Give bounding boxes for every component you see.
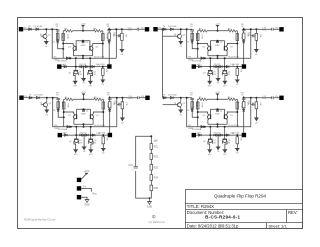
ground symbol (Q4) bbox=[88, 81, 93, 84]
wire base coupling bbox=[76, 41, 90, 47]
svg-text:GND: GND bbox=[84, 204, 90, 207]
wire output row bbox=[109, 28, 145, 30]
resistor R1 bbox=[56, 33, 59, 39]
wire input row bbox=[28, 28, 58, 30]
wire pad J5 to +12V bbox=[81, 173, 86, 179]
connector pad J6 (pin 14) bbox=[77, 186, 81, 190]
junction lower rail right bbox=[89, 57, 91, 59]
diode D12 bbox=[108, 41, 111, 44]
wire input to lower rail bbox=[52, 29, 63, 58]
svg-text:560C: 560C bbox=[128, 30, 133, 32]
flip-flop block 4 (bottom-right) bbox=[163, 92, 284, 156]
connector pad J8 (block 2 input) bbox=[153, 27, 162, 31]
resistor R22 bbox=[150, 154, 159, 160]
svg-text:R25: R25 bbox=[154, 187, 159, 190]
svg-text:680P: 680P bbox=[81, 45, 86, 47]
wire +12V to rail bbox=[82, 25, 84, 31]
wire R11 branch bbox=[121, 29, 123, 49]
junction right chain top bbox=[108, 28, 110, 30]
svg-text:R24: R24 bbox=[154, 177, 159, 180]
resistor R2 bbox=[65, 30, 73, 33]
drawing border frame bbox=[18, 18, 303, 229]
collector rail wire bbox=[63, 30, 103, 32]
power symbol +12V (connector area) bbox=[84, 170, 90, 175]
connector pad J3 set bbox=[57, 64, 61, 68]
wire left collector leg bbox=[62, 31, 64, 58]
transistor Q2 bbox=[73, 58, 78, 81]
svg-text:+12V: +12V bbox=[84, 170, 90, 173]
svg-text:R21: R21 bbox=[154, 146, 159, 149]
resistor R7 bbox=[102, 34, 105, 41]
wire center emitter to ground bbox=[83, 67, 85, 79]
svg-text:Date: 8/24/2012 @9:51:31p: Date: 8/24/2012 @9:51:31p bbox=[187, 224, 239, 229]
junction feedback drop bbox=[115, 28, 117, 30]
power symbol +12V (block) bbox=[80, 24, 86, 27]
transistor Q3 bbox=[90, 44, 103, 56]
diode D1 bbox=[29, 28, 32, 31]
bias network loop wire bbox=[136, 136, 152, 198]
diode D10 bbox=[85, 65, 88, 67]
resistor R24 bbox=[150, 175, 159, 181]
resistor R21 bbox=[150, 144, 159, 150]
transistor Q5 bbox=[43, 29, 47, 41]
capacitor C4 bbox=[107, 30, 111, 31]
junction bias/ground bbox=[149, 197, 151, 199]
svg-text:914B: 914B bbox=[33, 29, 38, 31]
resistor R23 bbox=[150, 164, 159, 170]
footer reference logo mark bbox=[152, 215, 155, 218]
resistor R4 bbox=[62, 34, 65, 41]
junction set row right bbox=[89, 66, 91, 68]
junction left chain / leg bbox=[62, 48, 64, 50]
svg-text:JN: JN bbox=[24, 96, 27, 98]
ground symbol (Q2) bbox=[73, 81, 78, 84]
resistor R25 bbox=[150, 185, 159, 191]
diode D2 bbox=[36, 28, 39, 31]
junction block4 feed bbox=[162, 28, 164, 30]
flip-flop block 3 (bottom-left) bbox=[29, 92, 150, 156]
junction D4 bbox=[69, 57, 71, 59]
transistor Q4 bbox=[88, 58, 93, 81]
wire emitter bus bbox=[73, 56, 92, 58]
resistor R8 bbox=[94, 30, 102, 33]
ground symbol (connector area) bbox=[85, 200, 90, 203]
junction emitter/rail bbox=[82, 57, 84, 59]
capacitor C21 bbox=[134, 166, 138, 168]
junction base-cap bbox=[82, 40, 84, 42]
wire block2 input down to block4 input row bbox=[162, 29, 164, 98]
svg-text:(C) Reference: (C) Reference bbox=[149, 220, 166, 224]
wire pad J7 to ground bbox=[81, 197, 87, 199]
wire pad J6 bbox=[81, 188, 91, 191]
svg-text:R23: R23 bbox=[154, 166, 159, 169]
capacitor C10 bbox=[137, 28, 138, 31]
resistor R5 bbox=[102, 67, 105, 80]
connector pad J5 (+12V) bbox=[77, 178, 81, 182]
svg-text:Quadruple Flip Flop R294: Quadruple Flip Flop R294 bbox=[214, 194, 267, 199]
diode D3 bbox=[56, 41, 59, 44]
connector pad J2 output bbox=[145, 27, 149, 31]
junction R5 top bbox=[102, 66, 104, 68]
wire set/reset row bbox=[62, 66, 108, 68]
junction Q1 collector/leg bbox=[62, 43, 64, 45]
resistor R11 bbox=[121, 33, 124, 40]
diode D11 bbox=[92, 65, 95, 67]
svg-text:5N 1N34A: 5N 1N34A bbox=[57, 60, 67, 63]
svg-text:Sheet: 1/1: Sheet: 1/1 bbox=[269, 224, 288, 229]
svg-text:JN: JN bbox=[24, 27, 27, 29]
svg-text:270R: 270R bbox=[105, 34, 107, 39]
diode D8 bbox=[64, 65, 67, 67]
wire right chain bbox=[108, 28, 110, 65]
title block outline bbox=[186, 190, 303, 229]
capacitor C3 bbox=[82, 42, 85, 43]
connector pad J7 (GND) bbox=[77, 195, 81, 199]
svg-text:REV:: REV: bbox=[288, 210, 298, 215]
connector pad J9 (block 3 input) bbox=[19, 96, 28, 100]
wire right collector leg bbox=[102, 31, 104, 58]
ground symbol (Q5) bbox=[44, 41, 49, 44]
svg-text:B-CS-R294-0-1: B-CS-R294-0-1 bbox=[205, 214, 240, 219]
svg-text:JN: JN bbox=[141, 27, 144, 29]
wire lower rail bbox=[63, 57, 116, 59]
svg-text:JN: JN bbox=[158, 27, 161, 29]
junction output row bbox=[121, 28, 123, 30]
junction set row left bbox=[75, 66, 77, 68]
svg-text:GND: GND bbox=[147, 205, 153, 208]
svg-text:5k6: 5k6 bbox=[154, 140, 159, 143]
svg-text:36 D6 914B: 36 D6 914B bbox=[94, 56, 105, 58]
junction set row mid bbox=[83, 66, 85, 68]
wire block4 Q5 base tie bbox=[163, 104, 176, 106]
junction Q5 collector bbox=[45, 28, 47, 30]
ground symbol (center) bbox=[81, 78, 86, 81]
capacitor C1 bbox=[56, 30, 60, 31]
resistor R10 bbox=[108, 33, 111, 39]
svg-text:R294-quad-flip-flop-CS.sch: R294-quad-flip-flop-CS.sch bbox=[24, 218, 56, 222]
flip-flop block 2 (top-right) bbox=[163, 24, 284, 88]
ground symbol (R11) bbox=[120, 49, 125, 52]
transistor Q1 bbox=[63, 44, 76, 56]
ground symbol (R5) bbox=[100, 80, 105, 83]
capacitor C6 bbox=[116, 34, 120, 37]
junction emitter bus bbox=[82, 55, 84, 57]
svg-text:D2 914B: D2 914B bbox=[33, 26, 42, 28]
wire left chain bbox=[58, 31, 64, 49]
junction lower rail left bbox=[75, 57, 77, 59]
wire Q5 base stub bbox=[41, 35, 43, 37]
wire block2 Q5 base tie bbox=[163, 35, 176, 37]
junction input/lower bbox=[51, 28, 53, 30]
diode D4 bbox=[66, 57, 69, 60]
diode D9 bbox=[79, 65, 82, 67]
svg-text:TITLE: R294X: TITLE: R294X bbox=[187, 204, 214, 209]
connector pad J4 reset bbox=[107, 64, 111, 68]
wire bias to ground bbox=[149, 198, 151, 202]
junction rail center bbox=[82, 30, 84, 32]
junction Q3 collector/leg bbox=[102, 43, 104, 45]
connector pad J1 (block 1 input) bbox=[19, 27, 28, 31]
svg-text:C21: C21 bbox=[129, 164, 134, 167]
svg-text:270R: 270R bbox=[66, 34, 68, 39]
ground symbol (bias network) bbox=[147, 202, 152, 205]
wire feedback drop bbox=[115, 29, 117, 58]
svg-text:R22: R22 bbox=[154, 156, 159, 159]
